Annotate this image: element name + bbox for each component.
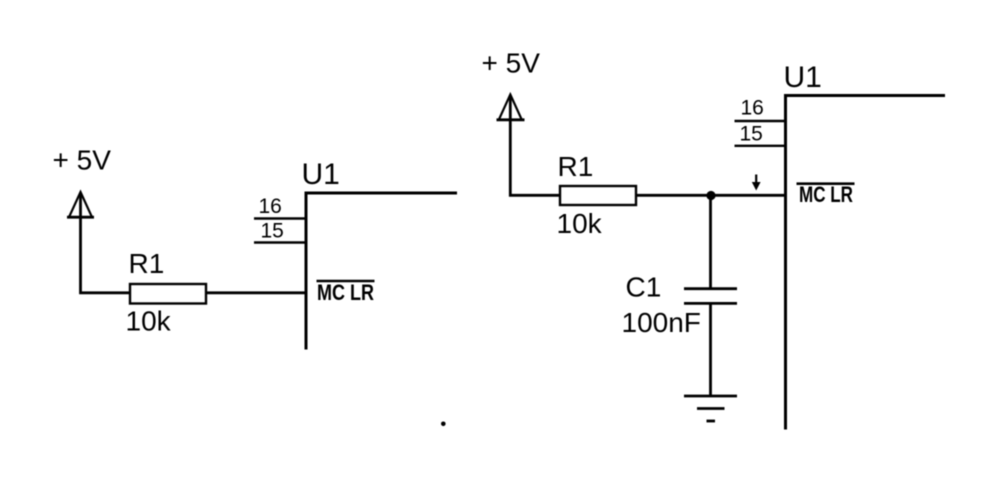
svg-text:U1: U1 [784, 61, 822, 94]
pin 15 stub (right) [735, 145, 786, 147]
svg-text:16: 16 [259, 195, 282, 218]
svg-text:+ 5V: + 5V [482, 48, 541, 79]
wire: R1 to U1 MCLR pin (right) [636, 194, 786, 197]
svg-text:R1: R1 [558, 151, 594, 182]
svg-text:16: 16 [741, 97, 764, 120]
svg-text:10k: 10k [557, 208, 603, 239]
wire: right +5V arrow down and right to R1 [510, 96, 561, 196]
svg-text:C1: C1 [626, 272, 662, 303]
resistor R1 (left) [130, 284, 206, 304]
pin 15 stub (left) [254, 241, 306, 243]
svg-text:R1: R1 [129, 248, 165, 279]
wire: C1 down to ground [709, 304, 712, 397]
ground symbol [684, 396, 737, 421]
capacitor C1 [684, 289, 737, 304]
+5V power arrow symbol (left) [67, 192, 94, 217]
svg-text:100nF: 100nF [622, 307, 701, 338]
svg-text:MC LR: MC LR [317, 280, 374, 305]
resistor R1 (right) [560, 186, 636, 205]
svg-text:15: 15 [740, 123, 763, 146]
small down arrow at MCLR pin [752, 175, 761, 191]
pin 16 stub (left) [254, 217, 306, 219]
junction node dot [706, 191, 715, 200]
IC U1 outline (right) [786, 96, 946, 430]
svg-text:10k: 10k [126, 306, 172, 337]
wire: junction down to C1 [709, 196, 712, 289]
MCLR overline (right) [797, 182, 855, 185]
svg-text:+ 5V: + 5V [53, 145, 112, 176]
svg-text:U1: U1 [302, 158, 340, 191]
wire: left +5V arrow down and right to R1 [81, 193, 132, 293]
MCLR overline (left) [317, 280, 375, 283]
wire: R1 to U1 MCLR pin (left) [206, 291, 305, 294]
pin 16 stub (right) [735, 120, 786, 122]
IC U1 outline (left) [306, 193, 457, 350]
svg-text:MC LR: MC LR [799, 182, 853, 207]
svg-text:15: 15 [261, 220, 284, 243]
+5V power arrow symbol (right) [497, 95, 525, 120]
stray dot [441, 422, 446, 427]
